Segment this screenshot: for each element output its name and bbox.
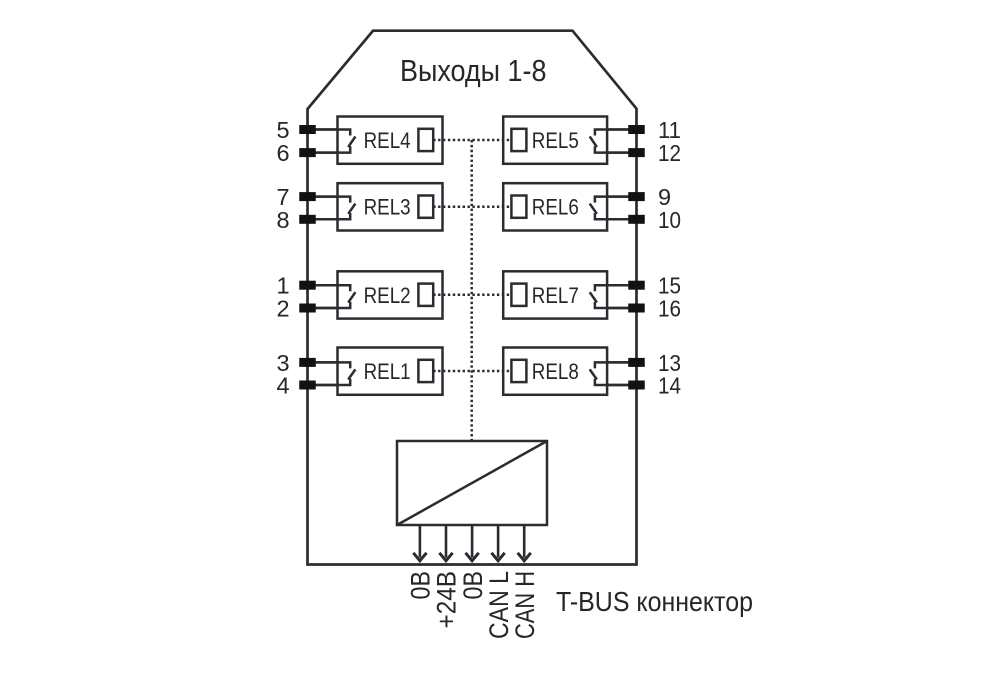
svg-text:14: 14 <box>658 373 681 399</box>
svg-text:5: 5 <box>276 117 289 143</box>
relay REL7 contact <box>590 285 629 308</box>
wire: pin 7 to REL3 <box>308 195 338 198</box>
wire: pin 5 to REL4 <box>308 128 338 131</box>
relay REL3 box <box>338 183 443 230</box>
terminal pin 7 <box>299 192 316 201</box>
relay REL1 contact <box>316 362 356 385</box>
wire: REL6 to pin 9 <box>607 195 636 198</box>
svg-text:8: 8 <box>276 207 289 233</box>
terminal pin 3 <box>299 358 316 367</box>
relay REL7 coil <box>511 284 526 306</box>
svg-text:REL8: REL8 <box>532 359 579 384</box>
dotted link REL1-REL8 coils <box>433 370 511 373</box>
relay REL6 contact <box>590 197 629 220</box>
wire: REL7 to pin 15 <box>607 284 636 287</box>
wire: pin 3 to REL1 <box>308 361 338 364</box>
svg-text:REL1: REL1 <box>364 359 411 384</box>
wire: REL7 to pin 16 <box>607 307 636 310</box>
terminal pin 4 <box>299 381 316 390</box>
T-BUS arrow +24В <box>445 525 448 558</box>
wire: pin 6 to REL4 <box>308 151 338 154</box>
terminal pin 11 <box>628 125 645 134</box>
terminal pin 13 <box>628 358 645 367</box>
svg-text:REL5: REL5 <box>532 128 579 153</box>
wire: REL5 to pin 12 <box>607 151 636 154</box>
relay REL2 coil <box>418 284 433 306</box>
T-BUS arrow 0В <box>471 525 474 558</box>
svg-text:REL3: REL3 <box>364 195 411 220</box>
relay REL1 coil <box>418 360 433 382</box>
relay REL2 contact <box>316 285 356 308</box>
svg-text:REL2: REL2 <box>364 283 411 308</box>
relay REL4 box <box>338 117 443 164</box>
terminal pin 6 <box>299 148 316 157</box>
svg-text:4: 4 <box>276 373 289 399</box>
relay REL6 box <box>503 183 607 230</box>
T-BUS arrow 0В <box>419 525 422 558</box>
terminal pin 5 <box>299 125 316 134</box>
wire: pin 8 to REL3 <box>308 218 338 221</box>
dotted link REL4-REL5 coils <box>433 139 511 142</box>
svg-text:REL7: REL7 <box>532 283 579 308</box>
T-BUS arrow CAN L <box>497 525 500 558</box>
relay REL1 box <box>338 348 443 395</box>
svg-text:2: 2 <box>276 296 289 322</box>
svg-text:16: 16 <box>658 296 681 322</box>
svg-text:REL4: REL4 <box>364 128 411 153</box>
relay REL4 contact <box>316 130 356 153</box>
relay REL7 box <box>503 271 607 318</box>
dotted link REL2-REL7 coils <box>433 294 511 297</box>
relay REL5 box <box>503 117 607 164</box>
wire: REL8 to pin 14 <box>607 384 636 387</box>
relay REL2 box <box>338 271 443 318</box>
power supply box <box>397 441 547 525</box>
T-BUS arrow CAN H <box>523 525 526 558</box>
terminal pin 12 <box>628 148 645 157</box>
wire: REL6 to pin 10 <box>607 218 636 221</box>
wire: REL8 to pin 13 <box>607 361 636 364</box>
relay REL4 coil <box>418 129 433 151</box>
wire: pin 4 to REL1 <box>308 384 338 387</box>
wire: pin 1 to REL2 <box>308 284 338 287</box>
svg-text:12: 12 <box>658 140 681 166</box>
relay REL8 contact <box>590 362 629 385</box>
terminal pin 14 <box>628 381 645 390</box>
relay REL3 coil <box>418 196 433 218</box>
svg-text:CAN H: CAN H <box>510 571 540 639</box>
power supply diagonal <box>397 441 547 525</box>
relay REL5 contact <box>590 130 629 153</box>
terminal pin 16 <box>628 304 645 313</box>
wire: REL5 to pin 11 <box>607 128 636 131</box>
terminal pin 1 <box>299 281 316 290</box>
svg-text:10: 10 <box>658 207 681 233</box>
relay REL8 box <box>503 348 607 395</box>
wire: pin 2 to REL2 <box>308 307 338 310</box>
terminal pin 10 <box>628 215 645 224</box>
svg-text:T-BUS коннектор: T-BUS коннектор <box>556 586 753 617</box>
relay REL6 coil <box>511 196 526 218</box>
center dotted control bus <box>470 140 473 441</box>
module body outline <box>308 31 637 565</box>
svg-text:11: 11 <box>658 117 681 143</box>
relay REL3 contact <box>316 197 356 220</box>
relay REL8 coil <box>511 360 526 382</box>
svg-text:Выходы 1-8: Выходы 1-8 <box>400 53 547 88</box>
terminal pin 8 <box>299 215 316 224</box>
svg-text:REL6: REL6 <box>532 195 579 220</box>
svg-text:6: 6 <box>276 140 289 166</box>
terminal pin 9 <box>628 192 645 201</box>
terminal pin 15 <box>628 281 645 290</box>
relay REL5 coil <box>511 129 526 151</box>
terminal pin 2 <box>299 304 316 313</box>
dotted link REL3-REL6 coils <box>433 205 511 208</box>
